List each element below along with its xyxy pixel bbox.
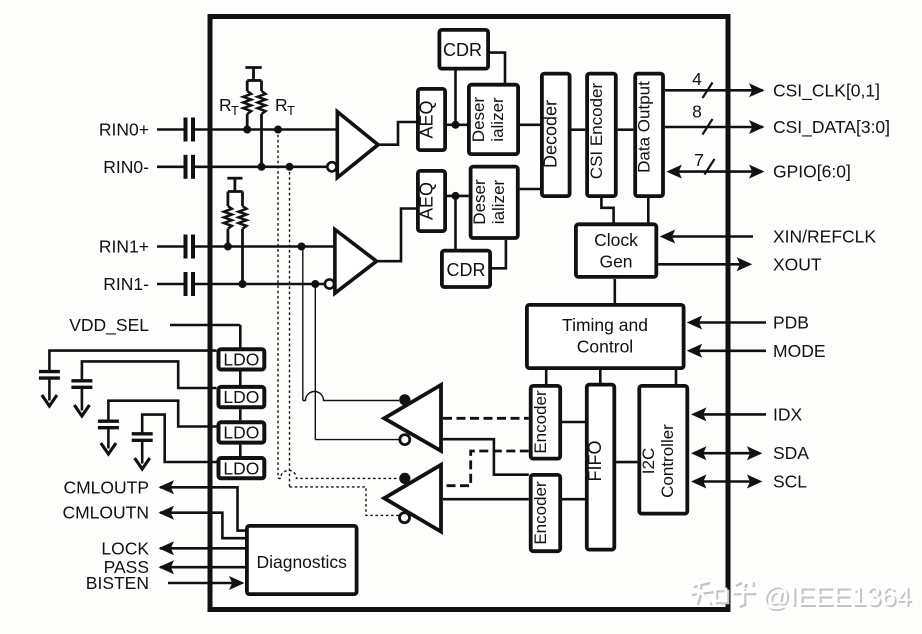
junction AEQ1 CDR1 node <box>452 192 460 200</box>
junction RIN1+ RT <box>224 243 232 251</box>
wire Encoder A to FIFO <box>562 421 585 424</box>
wire SDA bidirectional <box>691 446 762 460</box>
block Clock Gen <box>576 224 656 277</box>
dashed wire Encoder A to A3 <box>443 417 529 420</box>
svg-text:XOUT: XOUT <box>773 254 822 274</box>
inversion bubble A3 minus <box>400 435 410 445</box>
svg-text:CMLOUTN: CMLOUTN <box>62 503 149 523</box>
svg-text:CSI_CLK[0,1]: CSI_CLK[0,1] <box>773 81 880 102</box>
block Encoder A <box>531 386 561 459</box>
wire LDO2 to bypass cap CB2 <box>82 361 217 388</box>
dashed wire Encoder A to A4 <box>443 451 529 486</box>
wire LDO1 to bypass cap CB1 <box>49 351 216 372</box>
svg-text:XIN/REFCLK: XIN/REFCLK <box>773 227 876 247</box>
svg-text:4: 4 <box>692 69 702 89</box>
wire CDR1 up to AEQ1 node <box>454 197 457 249</box>
port label CMLOUTP <box>63 477 149 497</box>
svg-text:I2C: I2C <box>639 448 658 474</box>
wire LDO3 to bypass cap CB3 <box>108 401 216 427</box>
svg-text:RIN1+: RIN1+ <box>99 237 149 257</box>
block CSI Encoder <box>587 74 616 197</box>
dotted wire RIN0- tap to A4 minus <box>290 167 400 516</box>
block I2C Controller <box>639 386 687 514</box>
input buffer A2 (RIN1) <box>335 230 377 294</box>
svg-text:Decoder: Decoder <box>541 100 561 168</box>
port label RIN1+ <box>99 237 149 257</box>
svg-text:IDX: IDX <box>773 404 803 424</box>
wire CDR0 to Deserializer0 top <box>489 53 505 83</box>
block FIFO <box>585 385 614 550</box>
wire AEQ0 to Deserializer0 <box>447 124 467 127</box>
chip boundary outer box <box>210 17 728 610</box>
ground CB1 <box>42 378 57 406</box>
wire IDX input <box>691 407 766 421</box>
dotted wire RIN0+ tap to A4 plus with hop <box>278 130 399 479</box>
termination resistors RT RT (RIN0) <box>243 81 265 167</box>
wire LOCK output <box>159 541 246 555</box>
svg-text:CSI_DATA[3:0]: CSI_DATA[3:0] <box>773 117 890 138</box>
port label SCL <box>773 472 807 492</box>
output dot A3 plus <box>399 394 410 405</box>
wire Deserializer0 to Decoder <box>520 124 540 127</box>
svg-text:PDB: PDB <box>773 313 809 333</box>
port label IDX <box>773 404 803 424</box>
port label XIN/REFCLK <box>773 227 876 247</box>
wire SCL bidirectional <box>691 475 762 489</box>
svg-text:CDR: CDR <box>447 260 486 280</box>
wire Clock Gen to Timing and Control <box>613 279 616 304</box>
port label CSI_DATA[3:0] <box>773 117 890 138</box>
wire Timing to Encoder A <box>545 370 548 385</box>
svg-text:ializer: ializer <box>489 179 508 224</box>
bus width 4 label <box>692 69 702 89</box>
wire A2 output to AEQ1 <box>376 209 417 262</box>
input buffer A1 (RIN0) <box>337 112 378 178</box>
wire RIN1+ input <box>157 245 335 248</box>
wire XIN/REFCLK input <box>660 230 753 244</box>
port label VDD_SEL <box>69 315 149 336</box>
svg-text:Data Output: Data Output <box>635 81 654 173</box>
block Timing and Control <box>527 305 684 368</box>
wire XOUT output <box>658 257 752 271</box>
wire LDO1 to LDO2 <box>239 372 242 386</box>
wire Data Output to Clock Gen <box>647 198 650 223</box>
svg-text:ializer: ializer <box>488 97 507 142</box>
svg-text:LDO: LDO <box>223 387 259 407</box>
watermark zhihu @IEEE1364 <box>690 580 913 613</box>
block AEQ channel1 <box>417 171 446 231</box>
wire Encoder B to FIFO <box>562 498 585 501</box>
junction RIN0- RT <box>258 163 266 171</box>
svg-text:Encoder: Encoder <box>531 481 550 545</box>
inversion bubble A1 <box>327 162 336 171</box>
svg-text:Controller: Controller <box>658 424 677 498</box>
coupling capacitor C1 on RIN0+ <box>186 118 194 142</box>
ground CB3 <box>101 428 116 454</box>
svg-text:CMLOUTP: CMLOUTP <box>63 477 149 497</box>
svg-text:GPIO[6:0]: GPIO[6:0] <box>773 162 851 182</box>
wire CSI Encoder to Data Output <box>618 128 634 131</box>
svg-text:Gen: Gen <box>599 252 632 272</box>
wire CSI_CLK output with bus slash <box>665 83 765 99</box>
svg-text:Control: Control <box>577 337 633 357</box>
ground CB2 <box>74 388 89 417</box>
bypass capacitor CB2 <box>71 381 92 388</box>
block Diagnostics <box>247 526 357 594</box>
svg-text:Deser: Deser <box>469 96 488 142</box>
svg-text:7: 7 <box>694 150 704 170</box>
coupling capacitor C3 on RIN1+ <box>186 235 194 259</box>
block Encoder B <box>531 475 561 551</box>
coupling capacitor C4 on RIN1- <box>186 272 194 296</box>
bus width 8 label <box>692 102 702 122</box>
block AEQ channel0 <box>417 89 446 150</box>
port label PDB <box>773 313 809 333</box>
svg-text:Clock: Clock <box>594 230 638 250</box>
svg-text:Timing and: Timing and <box>562 315 648 335</box>
wire LDO4 to bypass cap CB4 <box>142 415 216 462</box>
junction RIN0+ tap <box>274 126 282 134</box>
port label CMLOUTN <box>62 503 149 523</box>
svg-text:LDO: LDO <box>223 350 259 370</box>
termination resistors RT RT (RIN1) <box>224 192 247 285</box>
block CDR channel0 <box>439 30 488 69</box>
port label RIN0+ <box>99 120 149 140</box>
wire MODE input <box>687 344 766 358</box>
block Deserializer channel1 <box>470 167 518 238</box>
port label CSI_CLK[0,1] <box>773 81 880 102</box>
bypass capacitor CB4 <box>132 434 153 441</box>
wire RIN1- input <box>157 283 325 286</box>
svg-text:RIN0+: RIN0+ <box>99 120 149 140</box>
wire LDO3 to LDO4 <box>239 445 242 456</box>
label RT left <box>219 95 239 118</box>
wire LDO2 to LDO3 <box>239 409 242 420</box>
junction AEQ0 CDR0 node <box>452 121 460 129</box>
block Data Output <box>635 74 664 197</box>
svg-text:BISTEN: BISTEN <box>86 573 149 593</box>
svg-text:SCL: SCL <box>773 472 807 492</box>
junction RIN0+ RT <box>243 126 251 134</box>
wire CMLOUTN output <box>159 506 246 539</box>
wire Deserializer1 to Decoder <box>520 188 540 191</box>
wire BISTEN input <box>168 576 245 590</box>
wire Decoder to CSI Encoder <box>572 128 586 131</box>
junction RIN1- RT <box>239 280 247 288</box>
port label LOCK <box>101 538 149 558</box>
junction RIN1- tap <box>311 280 319 288</box>
wire A3 base to Encoder B <box>443 439 529 475</box>
regulator LDO3 <box>219 422 265 442</box>
svg-text:R: R <box>219 95 232 115</box>
svg-text:T: T <box>287 103 295 118</box>
svg-text:LDO: LDO <box>223 423 259 443</box>
port label RIN0- <box>103 157 149 177</box>
port label BISTEN <box>86 573 149 593</box>
wire A3 plus to RIN1+ tap with hop <box>303 247 399 401</box>
wire GPIO bidirectional with bus slash <box>666 159 764 179</box>
svg-text:8: 8 <box>692 102 702 122</box>
loop-through driver A4 lower <box>384 465 441 532</box>
regulator LDO4 <box>219 458 265 478</box>
svg-text:AEQ: AEQ <box>417 100 437 138</box>
wire FIFO to I2C Controller <box>616 461 637 464</box>
block Decoder <box>541 74 570 197</box>
termination center-tap terminal RIN0 <box>245 68 261 80</box>
wire VDD_SEL to LDO1 <box>239 325 242 348</box>
svg-text:LDO: LDO <box>223 458 259 478</box>
svg-text:AEQ: AEQ <box>417 182 437 220</box>
block CDR channel1 <box>442 251 490 287</box>
wire Timing to FIFO <box>599 370 602 384</box>
wire CSI_DATA output with bus slash <box>665 119 765 135</box>
port label RIN1- <box>103 274 149 294</box>
port label SDA <box>773 443 809 463</box>
svg-text:VDD_SEL: VDD_SEL <box>69 315 149 336</box>
port label MODE <box>773 341 826 361</box>
bus width 7 label <box>694 150 704 170</box>
svg-text:CDR: CDR <box>443 40 482 60</box>
wire A1 output to AEQ0 <box>377 122 416 145</box>
wire PDB input <box>687 316 766 330</box>
wire RIN0- input <box>157 166 328 169</box>
output dot A4 plus <box>399 473 410 484</box>
svg-text:RIN0-: RIN0- <box>103 157 149 177</box>
wire CSI Encoder to Clock Gen <box>601 198 613 223</box>
junction RIN1+ tap <box>298 243 306 251</box>
svg-text:CSI Encoder: CSI Encoder <box>587 82 606 179</box>
svg-text:Deser: Deser <box>470 179 489 225</box>
svg-text:MODE: MODE <box>773 341 826 361</box>
svg-text:R: R <box>275 95 288 115</box>
port label PASS <box>104 557 149 577</box>
svg-text:SDA: SDA <box>773 443 809 463</box>
wire VDD_SEL <box>170 324 240 327</box>
svg-text:FIFO: FIFO <box>585 441 605 482</box>
wire RIN0+ input <box>157 128 338 131</box>
svg-text:@IEEE1364: @IEEE1364 <box>762 581 911 611</box>
termination center-tap terminal RIN1 <box>227 178 242 190</box>
port label XOUT <box>773 254 822 274</box>
inversion bubble A2 <box>325 279 334 288</box>
regulator LDO1 <box>219 349 265 369</box>
svg-text:LOCK: LOCK <box>101 538 149 558</box>
bypass capacitor CB1 <box>39 372 60 379</box>
wire CDR1 to Deserializer1 bottom <box>491 240 506 268</box>
wire AEQ1 to Deserializer1 <box>446 195 469 198</box>
wire PASS output <box>159 560 246 574</box>
ground CB4 <box>135 441 150 470</box>
wire CDR0 down to AEQ0 node <box>454 70 457 123</box>
wire A3 minus to RIN1- tap <box>315 284 399 440</box>
svg-text:Encoder: Encoder <box>531 390 550 454</box>
loop-through driver A3 upper <box>384 385 441 451</box>
port label GPIO[6:0] <box>773 162 851 182</box>
wire Timing to I2C Controller <box>675 370 678 385</box>
svg-text:RIN1-: RIN1- <box>103 274 149 294</box>
block Deserializer channel0 <box>469 85 518 154</box>
wire CMLOUTP output <box>159 480 246 530</box>
inversion bubble A4 minus <box>400 513 410 523</box>
junction RIN0- tap <box>286 163 294 171</box>
bypass capacitor CB3 <box>98 421 119 428</box>
label RT right <box>275 95 295 118</box>
wire A4 base to Encoder B <box>443 498 529 501</box>
coupling capacitor C2 on RIN0- <box>186 155 194 179</box>
regulator LDO2 <box>219 387 265 407</box>
svg-text:Diagnostics: Diagnostics <box>256 552 347 572</box>
svg-text:T: T <box>231 103 239 118</box>
